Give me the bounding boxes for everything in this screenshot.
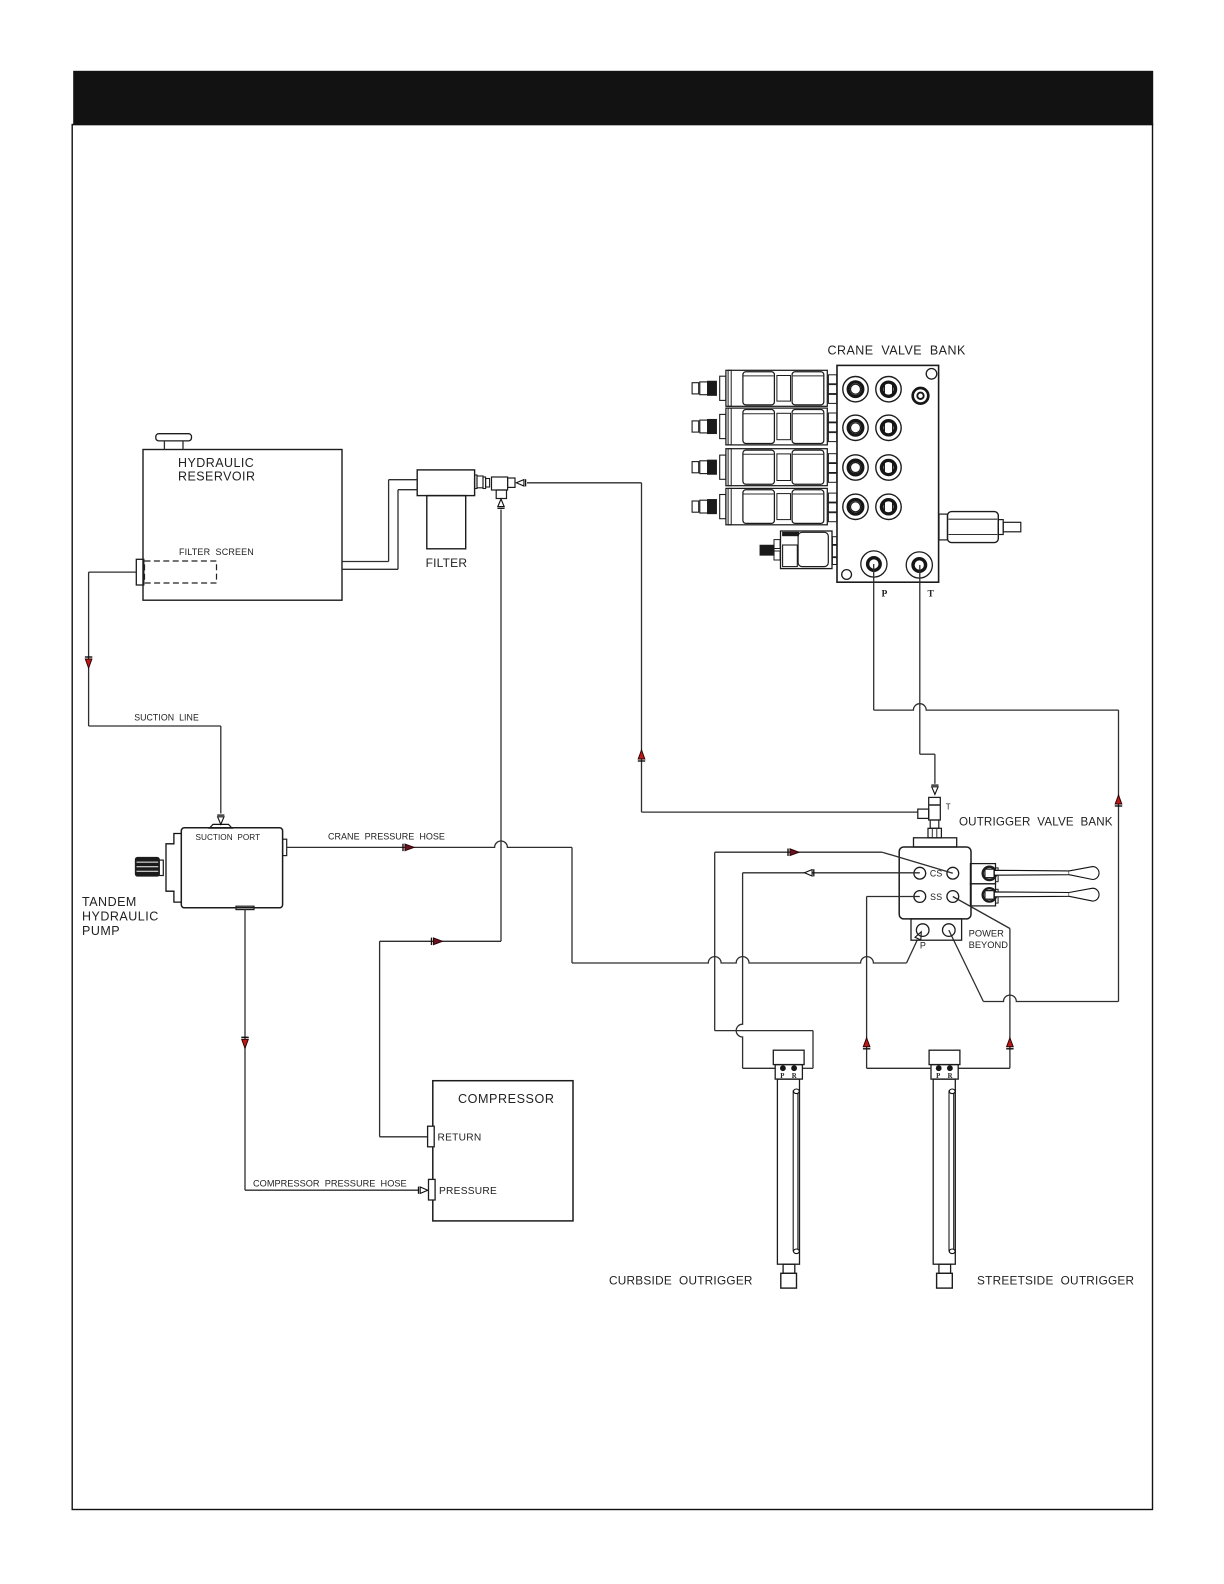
- label COMPRESSOR: [458, 1092, 554, 1106]
- svg-text:SS: SS: [930, 892, 942, 902]
- gauge port (small, top right): [913, 388, 929, 404]
- svg-text:HYDRAULIC: HYDRAULIC: [178, 456, 254, 470]
- work port B3 (plugged): [876, 455, 901, 480]
- open arrow left into tee (tank line): [516, 479, 525, 486]
- control lever upper (handle): [994, 867, 1099, 880]
- wire reservoir to filter upper: [342, 480, 417, 562]
- filter screen (dashed box): [145, 561, 217, 583]
- hydraulic reservoir tank body: [143, 450, 342, 601]
- wire reservoir to filter lower: [342, 490, 417, 570]
- work port A4 (triple ring): [843, 494, 868, 519]
- compressor pressure port stub: [429, 1179, 436, 1200]
- relief valve (below sections): [760, 531, 837, 569]
- control lever lower (handle): [994, 888, 1099, 901]
- work port A3 (triple ring): [843, 455, 868, 480]
- svg-text:FILTER SCREEN: FILTER SCREEN: [179, 547, 254, 557]
- svg-text:POWER: POWER: [969, 929, 1004, 939]
- svg-text:COMPRESSOR: COMPRESSOR: [458, 1092, 554, 1106]
- label HYDRAULIC RESERVOIR: [178, 456, 255, 484]
- svg-text:T: T: [928, 590, 935, 600]
- label SUCTION PORT inside pump: [196, 833, 261, 842]
- red arrow up on streetside R hose: [1006, 1038, 1013, 1049]
- CS work ports: [914, 867, 959, 879]
- lever bracket upper: [970, 864, 998, 884]
- wire SS to streetside R (rod side): [953, 897, 1010, 1069]
- work port B2 (plugged): [876, 415, 901, 440]
- reservoir suction port stub: [136, 559, 144, 585]
- tandem hydraulic pump body: [181, 828, 282, 908]
- section 4 interface blocks: [828, 493, 836, 522]
- label COMPRESSOR PRESSURE HOSE: [253, 1179, 407, 1189]
- crane valve bank manifold body: [837, 365, 939, 582]
- lever pivot lower: [983, 888, 996, 901]
- svg-text:COMPRESSOR PRESSURE HOSE: COMPRESSOR PRESSURE HOSE: [253, 1179, 407, 1189]
- svg-text:STREETSIDE OUTRIGGER: STREETSIDE OUTRIGGER: [977, 1274, 1134, 1288]
- label CRANE VALVE BANK: [828, 344, 966, 358]
- outrigger valve bank top cap: [914, 838, 957, 847]
- svg-text:RETURN: RETURN: [438, 1133, 482, 1144]
- svg-text:CURBSIDE OUTRIGGER: CURBSIDE OUTRIGGER: [609, 1274, 753, 1288]
- power beyond port circle: [943, 924, 956, 937]
- wire CS to curbside R (rod side): [715, 852, 953, 1068]
- label P under manifold: [882, 590, 888, 600]
- pump bottom port stub: [236, 906, 254, 909]
- svg-text:TANDEM: TANDEM: [82, 895, 137, 909]
- page border frame: [72, 125, 1152, 1510]
- filter body (element): [427, 496, 466, 549]
- label CS: [930, 869, 943, 879]
- label RETURN: [438, 1133, 482, 1144]
- red arrow down on suction line: [85, 657, 92, 668]
- tee fitting at filter outlet: [492, 477, 516, 499]
- red arrow up on right riser: [1115, 795, 1122, 806]
- lever bracket lower: [970, 884, 998, 906]
- red arrow down on compressor pressure hose: [241, 1037, 248, 1048]
- crane valve section 1 (solenoid pair): [726, 370, 827, 406]
- red arrow up on tank return line: [638, 750, 645, 761]
- wire CS to curbside P (piston side): [736, 873, 920, 1069]
- svg-text:SUCTION LINE: SUCTION LINE: [134, 713, 199, 723]
- lever pivot upper: [983, 867, 996, 880]
- svg-text:CRANE VALVE BANK: CRANE VALVE BANK: [828, 344, 966, 358]
- title bar (solid black header): [73, 71, 1153, 125]
- label T under manifold: [928, 590, 935, 600]
- label T at tee fitting: [946, 803, 951, 812]
- label SS: [930, 892, 942, 902]
- open arrow down into tee fitting: [931, 785, 938, 794]
- manifold bolt hole top-right: [926, 369, 937, 380]
- open arrow up into tee (return flow): [497, 499, 504, 508]
- svg-text:BEYOND: BEYOND: [969, 940, 1009, 950]
- dark arrow right on CS hose: [788, 849, 799, 856]
- svg-text:P: P: [920, 940, 926, 950]
- pump pressure port stub: [283, 839, 287, 855]
- section 4 cartridge connector: [692, 495, 726, 519]
- svg-text:SUCTION PORT: SUCTION PORT: [196, 833, 261, 842]
- svg-text:OUTRIGGER VALVE BANK: OUTRIGGER VALVE BANK: [959, 816, 1113, 829]
- outrigger valve bank body: [899, 847, 971, 919]
- compressor return port stub: [428, 1126, 435, 1147]
- red arrow up on streetside P hose: [863, 1038, 870, 1049]
- reservoir filler cap: [156, 434, 192, 450]
- section 1 cartridge connector: [692, 376, 726, 400]
- section 3 cartridge connector: [692, 455, 726, 479]
- label PRESSURE: [439, 1186, 497, 1197]
- crane valve section 2 (solenoid pair): [726, 408, 827, 445]
- label POWER BEYOND: [969, 929, 1009, 951]
- tee fitting stem and nut: [928, 820, 941, 838]
- label OUTRIGGER VALVE BANK: [959, 816, 1113, 829]
- crane valve section 4 (solenoid pair): [726, 488, 827, 524]
- svg-text:PRESSURE: PRESSURE: [439, 1186, 497, 1197]
- section 2 cartridge connector: [692, 414, 726, 438]
- pump suction port stub: [210, 824, 233, 828]
- filter head: [417, 470, 474, 496]
- svg-text:RESERVOIR: RESERVOIR: [178, 469, 255, 483]
- svg-text:CRANE PRESSURE HOSE: CRANE PRESSURE HOSE: [328, 832, 445, 842]
- SS work ports: [914, 891, 959, 903]
- section 3 interface blocks: [828, 454, 836, 483]
- outrigger inlet block: [911, 919, 962, 940]
- inlet port P circle: [916, 924, 929, 937]
- label CURBSIDE OUTRIGGER: [609, 1274, 753, 1288]
- wire suction line: [89, 572, 221, 813]
- label FILTER SCREEN: [179, 547, 254, 557]
- wire compressor pressure hose: [245, 909, 419, 1190]
- pump drive shaft (striped): [136, 858, 164, 877]
- svg-text:PUMP: PUMP: [82, 924, 120, 938]
- svg-text:T: T: [946, 803, 951, 812]
- section 1 interface blocks: [828, 375, 836, 404]
- work port B1 (plugged): [876, 377, 901, 402]
- wire SS to streetside P (piston side): [867, 897, 931, 1069]
- tee fitting body (outrigger T): [918, 797, 941, 820]
- label CRANE PRESSURE HOSE: [328, 832, 445, 842]
- filter outlet fittings: [475, 475, 490, 489]
- wire crane T to tee fitting: [920, 565, 935, 784]
- manifold bolt hole bottom-left: [842, 570, 852, 580]
- wire tank return line: [527, 483, 918, 812]
- open arrow left on CS piston hose: [805, 869, 814, 876]
- work port A2 (triple ring): [843, 415, 868, 440]
- red arrow right on crane pressure hose: [403, 844, 414, 851]
- P inlet port on manifold: [861, 551, 887, 577]
- curbside outrigger cylinder: [773, 1050, 804, 1288]
- wire compressor return line: [380, 510, 501, 1137]
- svg-text:P: P: [882, 590, 888, 600]
- red arrow right on return line: [432, 938, 443, 945]
- open arrow into outrigger valve P port: [915, 930, 924, 940]
- svg-text:HYDRAULIC: HYDRAULIC: [82, 910, 159, 924]
- work port A1 (triple ring): [843, 377, 868, 402]
- label SUCTION LINE: [134, 713, 199, 723]
- svg-text:FILTER: FILTER: [426, 556, 468, 570]
- wire crane pressure hose: [287, 841, 918, 963]
- crane valve section 3 (solenoid pair): [726, 449, 827, 486]
- section 2 interface blocks: [828, 413, 836, 442]
- compressor body: [433, 1081, 573, 1221]
- open arrow into pump suction port: [217, 815, 224, 824]
- pump mounting flange: [166, 834, 181, 903]
- label P on inlet block: [920, 940, 926, 950]
- label TANDEM HYDRAULIC PUMP: [82, 895, 159, 938]
- T outlet port on manifold: [906, 552, 932, 578]
- relief adjuster (right hex fitting): [939, 512, 1021, 543]
- open arrow into compressor pressure port: [419, 1187, 428, 1194]
- wire crane P to right riser: [874, 564, 1119, 1002]
- label STREETSIDE OUTRIGGER: [977, 1274, 1134, 1288]
- work port B4 (plugged): [876, 494, 901, 519]
- streetside outrigger cylinder: [929, 1050, 960, 1288]
- label FILTER: [426, 556, 468, 570]
